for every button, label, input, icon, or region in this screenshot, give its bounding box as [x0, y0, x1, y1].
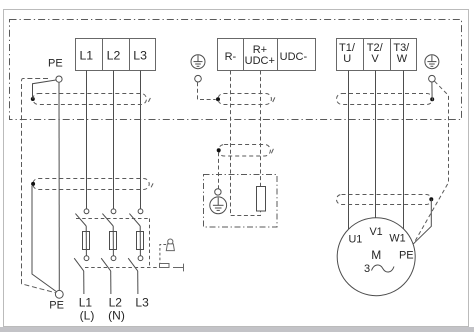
cable shield (motor cable, motor end)	[337, 195, 432, 205]
interlock end stop	[173, 267, 183, 269]
resistor ground terminal (small circle)	[215, 189, 221, 195]
wire L1 phase	[86, 71, 88, 209]
wire: bottom shield bond to PE (solid)	[32, 186, 56, 292]
svg-text:L3: L3	[133, 48, 147, 62]
node: DC cable shield bond (top)	[216, 97, 220, 101]
cable shield (motor cable, drive end)	[337, 94, 433, 105]
svg-text:(L): (L)	[80, 309, 95, 323]
svg-text:PE: PE	[399, 249, 414, 261]
svg-text:W: W	[397, 53, 408, 65]
sine wave symbol	[372, 265, 395, 272]
wire: PE conductor top to bottom	[58, 82, 60, 290]
wire: ground terminal to DC shield (dashed)	[198, 82, 216, 99]
switch mechanical linkage (dashed)	[76, 219, 159, 268]
svg-text:L2: L2	[107, 48, 121, 62]
brake resistor enclosure (dash-dot)	[204, 175, 278, 228]
bottom gray bar	[0, 327, 474, 332]
shield end tick (DC drive end)	[273, 97, 275, 102]
ground terminal (right small circle)	[429, 75, 436, 82]
svg-text:UDC-: UDC-	[280, 51, 308, 63]
ground symbol (drive PE, right)	[425, 55, 439, 69]
wire: PE terminal to shield junction (solid)	[33, 80, 56, 97]
svg-text:UDC+: UDC+	[245, 55, 275, 67]
svg-text:V: V	[371, 53, 379, 65]
node: DC cable shield bond (bottom)	[217, 148, 221, 152]
svg-text:L1: L1	[79, 296, 93, 310]
disconnect/fuse pole 2	[101, 209, 116, 294]
wire L2 phase	[113, 71, 115, 209]
cable shield (DC cable, resistor end)	[218, 145, 270, 157]
drive enclosure (dash-dot boundary)	[10, 20, 462, 120]
cable shield (input cable, bottom end)	[33, 179, 149, 190]
DC terminal block R- / R+UDC+ / UDC-	[218, 39, 316, 71]
ground terminal (left small circle)	[195, 75, 202, 82]
padlock dashed link	[160, 245, 166, 263]
wire L3 phase	[140, 71, 142, 209]
wire: dashed bonding conductor (left)	[22, 79, 56, 293]
PE terminal (bottom circle)	[55, 290, 63, 298]
cable shield (DC cable, drive end)	[218, 94, 271, 105]
input terminal block L1 L2 L3	[76, 39, 156, 71]
padlock (lockable handle)	[166, 239, 174, 251]
padlock hasp plate	[160, 264, 170, 268]
svg-text:L1: L1	[79, 48, 93, 62]
wire: dashed ground bond to motor PE	[414, 81, 449, 243]
svg-text:3: 3	[364, 263, 370, 275]
svg-text:L3: L3	[135, 296, 149, 310]
svg-text:U: U	[343, 53, 351, 65]
svg-text:L2: L2	[109, 296, 123, 310]
PE terminal (top left circle)	[56, 76, 62, 82]
disconnect/fuse pole 1	[74, 209, 89, 294]
motor M 3~	[337, 218, 415, 296]
node: motor cable shield bond (drive end)	[430, 97, 434, 101]
svg-text:U1: U1	[348, 234, 362, 246]
wire T2/V phase	[375, 71, 377, 218]
ground symbol (drive PE, left)	[191, 55, 205, 69]
svg-text:V1: V1	[369, 226, 382, 238]
output terminal block T1/U T2/V T3/W	[337, 39, 417, 71]
svg-text:W1: W1	[389, 233, 405, 245]
svg-text:R+: R+	[253, 44, 267, 56]
shield end tick (DC resistor end)	[271, 149, 273, 154]
node: motor cable shield bond (motor end)	[429, 197, 433, 201]
node: shield bond junction (input cable)	[31, 97, 35, 101]
wire: right ground to motor shield (solid)	[431, 82, 433, 97]
wire: shield bond to resistor ground (dashed)	[218, 152, 220, 188]
svg-text:PE: PE	[48, 57, 63, 69]
wire: motor shield bond to motor PE (solid)	[413, 199, 431, 244]
svg-text:(N): (N)	[108, 309, 125, 323]
cable shield (input cable, rounded dashed)	[33, 94, 147, 105]
ground symbol (brake resistor)	[210, 197, 227, 214]
wire T3/W phase	[403, 71, 405, 229]
brake resistor R	[257, 187, 266, 212]
wire R- (dashed)	[231, 71, 261, 216]
shield end tick (input cable)	[148, 98, 150, 102]
wire T1/U phase	[348, 71, 350, 230]
disconnect/fuse pole 3	[128, 209, 143, 294]
svg-text:PE: PE	[49, 300, 64, 312]
shield end tick (bottom input)	[151, 183, 153, 187]
svg-text:M: M	[371, 248, 381, 262]
svg-text:R-: R-	[225, 51, 237, 63]
wire R+/UDC+ (dashed)	[260, 71, 262, 187]
node: shield bond junction (bottom input)	[31, 182, 35, 186]
